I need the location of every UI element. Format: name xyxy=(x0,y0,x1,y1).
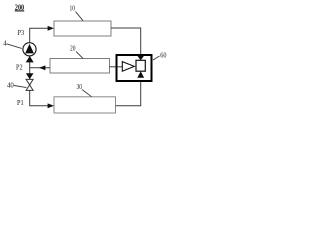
svg-text:P1: P1 xyxy=(17,98,24,107)
svg-text:40: 40 xyxy=(7,82,14,89)
svg-text:P2: P2 xyxy=(16,63,23,72)
svg-text:P3: P3 xyxy=(18,28,25,37)
svg-text:4: 4 xyxy=(3,40,7,47)
svg-text:10: 10 xyxy=(70,4,76,13)
svg-text:60: 60 xyxy=(160,51,166,60)
svg-text:30: 30 xyxy=(77,82,83,91)
svg-text:20: 20 xyxy=(70,44,76,53)
